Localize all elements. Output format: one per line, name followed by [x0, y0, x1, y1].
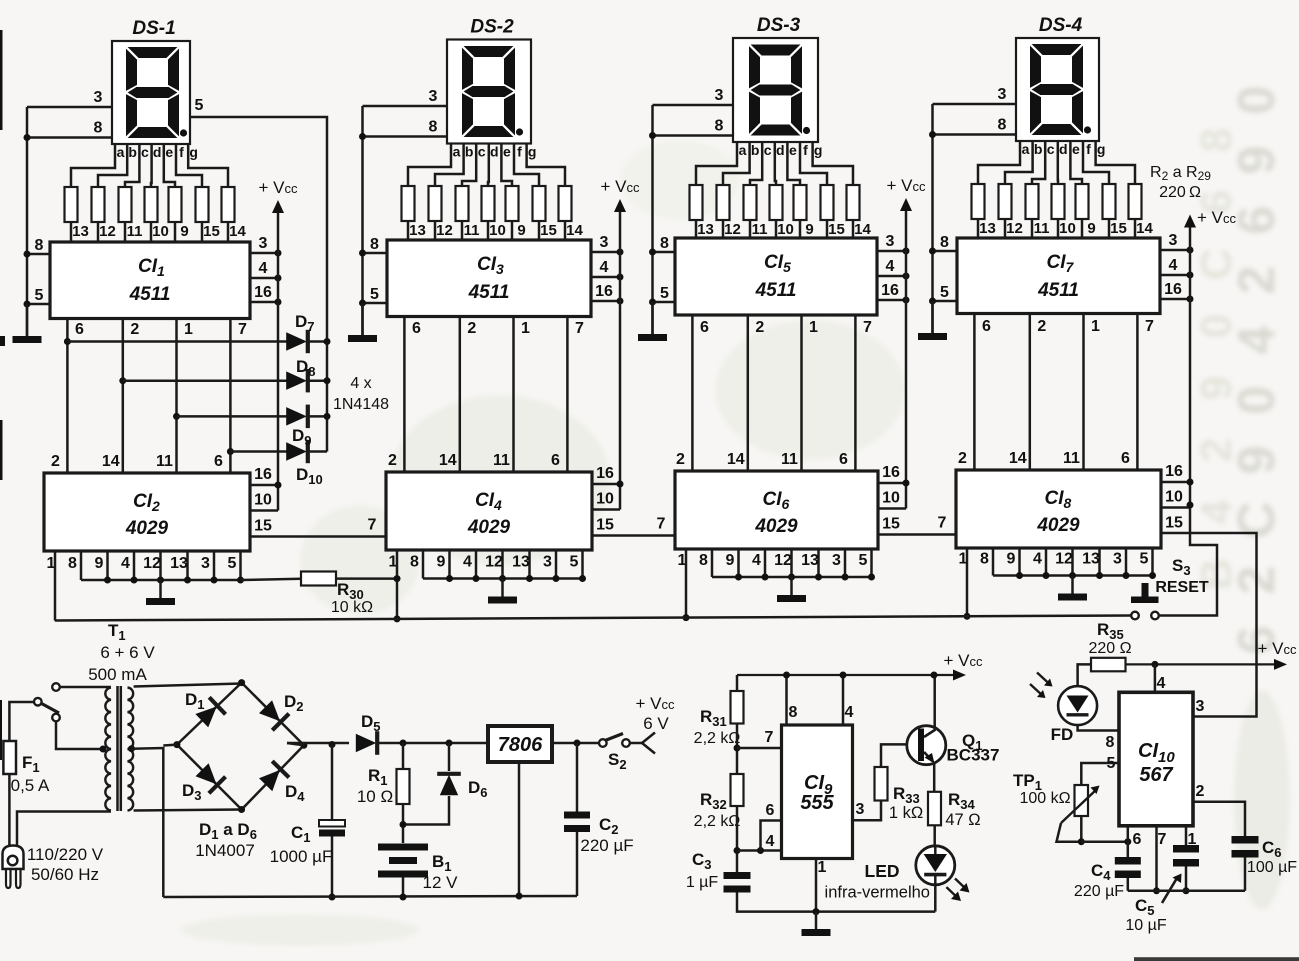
- wire CI8 pin 10 to Vcc rail: [1161, 506, 1190, 509]
- junction gnd 555: [813, 908, 820, 915]
- svg-text:10 kΩ: 10 kΩ: [331, 599, 373, 616]
- pin label 1 of CI5 bottom: [809, 319, 818, 336]
- svg-text:3: 3: [429, 88, 438, 105]
- label D9: [292, 426, 312, 448]
- svg-text:6: 6: [551, 452, 560, 469]
- svg-text:2: 2: [130, 321, 139, 338]
- wire segment a of DS-3 to resistor: [696, 142, 737, 185]
- capacitor C1: [319, 820, 345, 837]
- wire CI3 pin 6 to CI4 pin 2: [403, 317, 406, 473]
- svg-text:9: 9: [1007, 551, 1016, 568]
- LED infrared: [916, 846, 955, 885]
- ground CI2: [146, 580, 175, 605]
- pin label 5 of CI1: [35, 287, 44, 304]
- wire R31 top: [736, 675, 739, 691]
- junction bottom rail CI6: [762, 574, 769, 581]
- label F1: [22, 753, 40, 775]
- resistor segment network R (column 5) section 2: [506, 186, 519, 221]
- pin labels 13 12 11 10 9 15 14 of CI5: [697, 221, 871, 238]
- svg-text:5: 5: [35, 287, 44, 304]
- display DS-1 decimal point: [180, 129, 187, 136]
- svg-text:16: 16: [881, 282, 899, 299]
- bottom common rail of CI6: [712, 576, 872, 579]
- label 2,2 kOhm s2: [694, 813, 741, 830]
- junction Vcc pin 3 section 1: [275, 250, 282, 257]
- wire DS-2 pin 3 to left rail: [363, 105, 448, 108]
- junction bottom rail CI4: [553, 575, 560, 582]
- junction Vcc pin 4 section 2: [617, 274, 624, 281]
- label 4511 of CI5: [755, 280, 797, 301]
- svg-text:5: 5: [228, 555, 237, 572]
- pin label 16 of CI4: [596, 465, 614, 482]
- pin label 8 of DS-3: [715, 118, 724, 135]
- wire CI2 bottom pin stub 2: [106, 551, 109, 580]
- resistor segment network R (column 4) section 3: [770, 185, 783, 220]
- pin label 14 of CI8 top: [1009, 450, 1027, 467]
- pin label 8 of DS-2: [429, 119, 438, 136]
- svg-text:5: 5: [940, 284, 949, 301]
- label 500 mA: [88, 665, 147, 684]
- pin label 5 of DS-1: [195, 97, 204, 114]
- wire CI6 pin 16 to Vcc rail: [878, 482, 906, 485]
- svg-text:5: 5: [660, 285, 669, 302]
- pin label 5 of CI3: [370, 286, 379, 303]
- wire CI4 pin 15 to CI6 pin 7: [592, 534, 675, 537]
- junction C1 branch: [329, 741, 336, 748]
- pin label 11 of CI2 top: [156, 453, 173, 470]
- wire C4 to bottom: [1127, 878, 1130, 891]
- label 4029 of CI8: [1036, 515, 1080, 536]
- svg-text:6: 6: [214, 453, 223, 470]
- svg-text:12: 12: [99, 223, 116, 240]
- svg-text:14: 14: [439, 452, 457, 469]
- wire pin 4top of CI9: [842, 675, 845, 725]
- wire CI5 pin 3 to Vcc rail: [877, 250, 906, 253]
- wire CI10 pin 4: [1154, 664, 1157, 692]
- pin label 11 of CI6 top: [781, 451, 798, 468]
- svg-text:10: 10: [1059, 220, 1076, 237]
- diode D6: [437, 774, 461, 795]
- junction bottom rail CI6: [788, 574, 795, 581]
- pin label 1 of CI3 bottom: [521, 320, 530, 337]
- pin label 3 of CI3 right: [600, 234, 609, 251]
- pin label 3 of CI1 right: [259, 235, 268, 252]
- svg-text:e: e: [165, 144, 173, 160]
- svg-text:10 µF: 10 µF: [1125, 917, 1166, 934]
- resistor segment network R (column 1) section 3: [690, 185, 703, 220]
- wire segment b of DS-1 to resistor: [98, 144, 127, 187]
- resistor segment network R (column 4) section 4: [1052, 184, 1065, 219]
- wire segment f of DS-4 to resistor: [1083, 141, 1109, 184]
- wire CI7 pin 8 to rail: [933, 250, 958, 253]
- svg-text:11: 11: [464, 222, 480, 239]
- display DS-3 seven-segment digit 8: [749, 45, 802, 136]
- svg-text:3: 3: [94, 89, 103, 106]
- switch S1 lever: [42, 704, 60, 714]
- wire FD top to R35: [1078, 664, 1091, 687]
- junction bridge bottom: [238, 806, 245, 813]
- wire CI2 bottom pin stub 7: [239, 551, 242, 580]
- svg-text:10: 10: [152, 223, 169, 240]
- svg-text:g: g: [814, 142, 823, 158]
- pin labels 13 12 11 10 9 15 14 of CI7: [979, 220, 1153, 237]
- svg-text:15: 15: [540, 222, 557, 239]
- svg-text:a: a: [1022, 141, 1030, 157]
- wire CI2 pin 16 to Vcc rail: [250, 484, 278, 487]
- label D5: [361, 712, 381, 734]
- display DS-2 seven-segment digit 8: [462, 46, 515, 137]
- wire cathode of D8 to bus: [307, 379, 327, 382]
- wire CI4 bottom pin stub 6: [555, 550, 558, 579]
- svg-text:10: 10: [1165, 489, 1183, 506]
- label D3: [182, 781, 202, 803]
- junction Vcc pin 4 section 3: [903, 273, 910, 280]
- wire CI1 pin 1 to CI2 pin 11: [175, 319, 178, 474]
- wire CI10 pin 6 to C4: [1127, 826, 1130, 857]
- svg-text:DS-2: DS-2: [470, 17, 514, 38]
- label D10: [296, 465, 323, 487]
- junction bottom rail CI2: [157, 577, 164, 584]
- svg-text:220 Ω: 220 Ω: [1088, 640, 1131, 657]
- wire resistor 2 to CI pin 12 section 1: [97, 222, 100, 242]
- wire R30 to CI4 pin1: [336, 577, 397, 580]
- svg-text:7: 7: [938, 515, 947, 532]
- svg-text:3: 3: [1113, 551, 1122, 568]
- junction pin8 vcc: [783, 672, 790, 679]
- junction 7806 bus: [516, 893, 523, 900]
- svg-text:d: d: [1059, 141, 1068, 157]
- svg-text:8: 8: [35, 237, 44, 254]
- wire CI2 rail to R30: [241, 579, 301, 580]
- wire anode of D7: [67, 340, 287, 343]
- wire TP1 node to pin 6: [1081, 840, 1128, 843]
- pin label 16 of CI2: [254, 466, 272, 483]
- wire segment g of DS-1 to resistor: [188, 144, 228, 187]
- svg-text:16: 16: [595, 283, 613, 300]
- pin label 7 of CI3 bottom: [575, 320, 584, 337]
- label 6 V: [643, 714, 669, 733]
- resistor R31: [731, 691, 744, 724]
- pin label 8 of DS-4: [998, 117, 1007, 134]
- svg-text:3: 3: [259, 235, 268, 252]
- pin label 1 of CI7 bottom: [1091, 318, 1100, 335]
- wire plug to fuse: [8, 774, 11, 846]
- svg-text:1 kΩ: 1 kΩ: [889, 804, 923, 822]
- label CI4: [475, 490, 502, 513]
- wire R35 to vcc arrow: [1126, 659, 1288, 670]
- junction pin5 rail section 2: [359, 300, 366, 307]
- label R30: [337, 580, 364, 602]
- wire CI1 pin 8 to rail: [27, 253, 50, 256]
- svg-text:4 x: 4 x: [350, 375, 371, 392]
- junction pins 2-6 node: [734, 847, 741, 854]
- wire CI3 pin 2 to CI4 pin 14: [459, 317, 462, 473]
- label 7806: [498, 734, 543, 756]
- svg-text:11: 11: [1034, 220, 1050, 237]
- junction Vcc pin 4 section 4: [1187, 272, 1194, 279]
- 0V bus wire: [163, 896, 577, 897]
- svg-text:4: 4: [766, 833, 775, 850]
- wire cathode of D10 to bus: [307, 450, 327, 453]
- junction pin8 rail section 2: [359, 250, 366, 257]
- label B1: [432, 852, 452, 874]
- svg-text:14: 14: [1009, 450, 1027, 467]
- label DS-2: [470, 17, 514, 38]
- junction bridge top: [238, 679, 245, 686]
- pin label 4 of CI5 right: [886, 258, 895, 275]
- pin label 1 CI10: [1188, 831, 1197, 848]
- wire resistor 6 to CI pin 15 section 3: [826, 220, 829, 238]
- label 1000 uF: [270, 847, 333, 866]
- +Vcc wire 555: [737, 670, 966, 681]
- svg-text:15: 15: [596, 517, 614, 534]
- pin label 15 of CI4: [596, 517, 614, 534]
- svg-text:15: 15: [1110, 220, 1127, 237]
- resistor segment network R (column 1) section 1: [65, 187, 78, 222]
- op IC CI3 4511 box: [387, 240, 591, 317]
- junction battery top: [400, 821, 407, 828]
- pin label 7 of CI7 bottom: [1145, 318, 1154, 335]
- transistor Q1 BC337: [907, 726, 946, 765]
- wire resistor 3 to CI pin 11 section 3: [749, 220, 752, 238]
- wire CI4 pin 16 to Vcc rail: [592, 483, 620, 486]
- junction S3 wire at CI8 pin 10: [1187, 502, 1194, 509]
- segment letter labels a-g of DS-4: [1022, 141, 1106, 157]
- svg-text:FD: FD: [1051, 725, 1074, 744]
- pin label 3 of CI5 right: [886, 233, 895, 250]
- black strip bottom right: [1134, 957, 1299, 961]
- wire CI7 pin 1 to CI8 pin 11: [1082, 314, 1085, 471]
- pin labels bottom of CI2: [47, 555, 237, 572]
- pin label 8 of CI3: [370, 236, 379, 253]
- junction bridge right: [300, 742, 307, 749]
- pin label 6 CI10: [1133, 831, 1142, 848]
- pin label 10 of CI4: [596, 491, 614, 508]
- svg-text:1000 µF: 1000 µF: [270, 847, 333, 866]
- pin label 3 CI10: [1196, 698, 1205, 715]
- label 50/60 Hz: [31, 865, 99, 884]
- svg-text:4: 4: [752, 552, 761, 569]
- pin label 7 CI9: [765, 729, 774, 746]
- svg-text:4: 4: [886, 258, 895, 275]
- switch S2 contacts: [599, 739, 630, 747]
- label D2: [284, 692, 304, 714]
- wire CI6 pin 1 to bottom bus: [685, 549, 688, 618]
- label 4029 of CI4: [467, 517, 511, 538]
- svg-text:c: c: [1047, 141, 1055, 157]
- svg-text:4: 4: [1157, 675, 1166, 692]
- svg-text:1: 1: [1091, 318, 1100, 335]
- junction Vcc pin 16 section 3: [903, 297, 910, 304]
- svg-text:9: 9: [1087, 220, 1095, 237]
- svg-text:10: 10: [254, 492, 272, 509]
- pin label 15 of CI8: [1165, 515, 1183, 532]
- label T1: [108, 621, 126, 643]
- svg-text:g: g: [1097, 141, 1106, 157]
- wire CI4 bottom pin stub 1: [422, 550, 425, 579]
- svg-text:6: 6: [1121, 450, 1130, 467]
- wire segment a of DS-1 to resistor: [71, 144, 115, 187]
- svg-text:13: 13: [72, 223, 89, 240]
- wire R31 to R32: [736, 724, 739, 775]
- wire CI8 pin 1 to bottom bus: [966, 548, 969, 616]
- bottom common rail of CI2: [81, 579, 241, 582]
- resistor segment network R (column 5) section 1: [169, 187, 182, 222]
- bottom wire 567 section: [1128, 890, 1245, 893]
- pin label 3 of DS-3: [715, 87, 724, 104]
- wire DS-3 pin 8 to left rail: [653, 134, 734, 137]
- label 4029 of CI6: [754, 516, 798, 537]
- diode D9: [286, 405, 308, 429]
- pin label 6 of CI5 bottom: [700, 319, 709, 336]
- svg-text:2: 2: [51, 453, 60, 470]
- svg-text:+ Vcc: + Vcc: [887, 176, 927, 195]
- label CI2: [133, 491, 160, 514]
- junction pin8 rail section 3: [649, 249, 656, 256]
- pin label 6 of CI8 top: [1121, 450, 1130, 467]
- svg-text:15: 15: [1165, 515, 1183, 532]
- wire segment f of DS-3 to resistor: [800, 142, 827, 185]
- wire C1 to 0V bus: [331, 837, 334, 898]
- wire resistor 4 to CI pin 10 section 3: [775, 220, 778, 238]
- wire R1 bottom to battery: [402, 804, 405, 843]
- wire resistor 1 to CI pin 13 section 3: [695, 220, 698, 238]
- wire resistor 7 to CI pin 14 section 2: [564, 221, 567, 240]
- label +Vcc section 1: [259, 178, 299, 197]
- label 555: [800, 792, 834, 814]
- pin label 16 of CI3 right: [595, 283, 613, 300]
- pin label 14 of CI4 top: [439, 452, 457, 469]
- wire D6 top: [448, 743, 451, 771]
- wire resistor 7 to CI pin 14 section 1: [227, 222, 230, 242]
- pin label 6 of CI2 top: [214, 453, 223, 470]
- svg-text:9: 9: [805, 221, 813, 238]
- label 100 uF C6: [1247, 859, 1297, 876]
- svg-text:16: 16: [1164, 281, 1182, 298]
- wire resistor 3 to CI pin 11 section 1: [124, 222, 127, 242]
- label LED: [865, 861, 900, 881]
- svg-text:500 mA: 500 mA: [88, 665, 147, 684]
- svg-text:7: 7: [765, 729, 774, 746]
- fuse F1: [3, 741, 16, 774]
- junction TP1 bottom: [1078, 838, 1085, 845]
- svg-text:1: 1: [184, 321, 193, 338]
- wire D5 to 7806 input: [377, 742, 488, 745]
- wire C2 up: [576, 743, 579, 812]
- label 12 V: [423, 873, 459, 892]
- label 0,5 A: [11, 776, 50, 795]
- wire DS-2 pin 8 to left rail: [363, 135, 448, 138]
- svg-text:2: 2: [1196, 783, 1205, 800]
- wire CI6 bottom pin stub 6: [844, 549, 847, 577]
- pin label 2 CI10: [1196, 783, 1205, 800]
- svg-text:3: 3: [886, 233, 895, 250]
- wire cathode of D7 to bus: [307, 340, 327, 343]
- pin label 2 of CI3 bottom: [467, 320, 476, 337]
- pin label 2 of CI6 top: [676, 451, 685, 468]
- label D1 a D6: [199, 820, 257, 842]
- pin label 8 of CI1: [35, 237, 44, 254]
- svg-text:d: d: [153, 144, 162, 160]
- svg-text:7: 7: [1158, 831, 1167, 848]
- segment letter labels a-g of DS-3: [739, 142, 823, 158]
- label C3: [692, 850, 712, 872]
- wire CI6 pin 10 to Vcc rail: [878, 507, 906, 510]
- label +Vcc 555: [944, 651, 984, 670]
- wire CI7 pin 4 to Vcc rail: [1160, 274, 1190, 277]
- svg-text:DS-1: DS-1: [132, 18, 175, 39]
- svg-text:15: 15: [882, 516, 900, 533]
- pin label 4 CI9 top: [845, 704, 854, 721]
- junction pin5 rail section 4: [929, 298, 936, 305]
- trimpot TP1: [1061, 785, 1100, 823]
- svg-text:6 V: 6 V: [643, 714, 669, 733]
- junction R1 top: [400, 740, 407, 747]
- wire resistor 6 to CI pin 15 section 2: [538, 221, 541, 240]
- pin label 6 of CI6 top: [839, 451, 848, 468]
- wire secondary top to bridge: [134, 684, 242, 687]
- transformer T1 secondary winding: [128, 688, 134, 811]
- junction bottom rail CI2: [104, 577, 111, 584]
- wire resistor 3 to CI pin 11 section 2: [461, 221, 464, 240]
- svg-text:e: e: [789, 142, 797, 158]
- wire C1 up: [331, 745, 334, 821]
- junction primary center tap: [100, 746, 107, 753]
- pin label 15 of CI6: [882, 516, 900, 533]
- label 1N4007: [195, 841, 255, 860]
- wire CI8 pin 16 to Vcc rail: [1161, 481, 1190, 484]
- diode D4: [259, 761, 289, 791]
- svg-text:7: 7: [238, 321, 247, 338]
- svg-text:2,2 kΩ: 2,2 kΩ: [694, 813, 741, 830]
- svg-text:12: 12: [1006, 220, 1023, 237]
- pin label 2 of CI7 bottom: [1037, 318, 1046, 335]
- svg-text:50/60 Hz: 50/60 Hz: [31, 865, 99, 884]
- label 10 uF: [1125, 917, 1166, 934]
- wire anode of D10: [230, 450, 287, 453]
- wire resistor 2 to CI pin 12 section 3: [722, 220, 725, 238]
- wire TP1 bottom: [1080, 816, 1083, 842]
- wire CI10 pin 1 to C5: [1185, 826, 1188, 845]
- svg-text:5: 5: [195, 97, 204, 114]
- resistor segment network R (column 3) section 4: [1026, 184, 1039, 219]
- label 1 kOhm: [889, 804, 923, 822]
- wire CI6 bottom pin stub 2: [737, 549, 740, 577]
- svg-text:5: 5: [370, 286, 379, 303]
- wire segment g of DS-4 to resistor: [1096, 141, 1135, 184]
- svg-text:567: 567: [1139, 764, 1173, 786]
- junction bus D7: [324, 338, 331, 345]
- label S3: [1172, 556, 1191, 578]
- svg-text:10: 10: [489, 222, 506, 239]
- svg-text:e: e: [1072, 141, 1080, 157]
- svg-text:f: f: [517, 144, 522, 160]
- svg-text:9: 9: [1192, 376, 1241, 400]
- wire S2 to output fork: [630, 742, 642, 745]
- junction bottom rail CI6: [868, 574, 875, 581]
- svg-text:d: d: [490, 144, 499, 160]
- resistor segment network R (column 6) section 2: [533, 186, 546, 221]
- label 4511 of CI7: [1037, 280, 1079, 301]
- scan mark left low: [0, 700, 2, 760]
- label 6 + 6 V: [100, 643, 155, 662]
- resistor segment network R (column 3) section 1: [119, 187, 132, 222]
- svg-text:0,5 A: 0,5 A: [11, 776, 50, 795]
- label 220 uF C4: [1074, 883, 1124, 900]
- pin label 10 of CI8: [1165, 489, 1183, 506]
- svg-text:16: 16: [882, 464, 900, 481]
- pin label 3 of CI7 right: [1169, 232, 1178, 249]
